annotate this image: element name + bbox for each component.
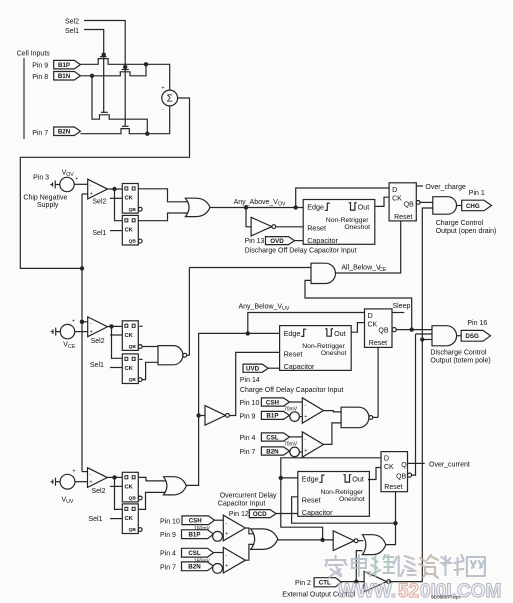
svg-text:+: + — [304, 448, 307, 454]
svg-text:Edge: Edge — [302, 475, 319, 484]
svg-text:+: + — [72, 318, 75, 324]
svg-text:160mV: 160mV — [194, 558, 211, 564]
svg-text:Q: Q — [401, 462, 407, 469]
svg-text:Out: Out — [358, 203, 370, 212]
svg-text:Charge Control: Charge Control — [436, 220, 484, 227]
svg-text:Capacitor Input: Capacitor Input — [218, 501, 266, 508]
svg-text:CK: CK — [125, 196, 134, 202]
svg-text:Sel2: Sel2 — [91, 338, 105, 345]
svg-text:Oneshot: Oneshot — [339, 496, 365, 503]
svg-text:B1P: B1P — [266, 413, 278, 420]
svg-text:CK: CK — [125, 516, 134, 522]
svg-text:OCD: OCD — [253, 511, 267, 518]
svg-text:Pin 4: Pin 4 — [240, 435, 256, 442]
svg-text:CK: CK — [384, 464, 394, 471]
svg-text:Σ: Σ — [167, 94, 173, 105]
svg-text:Discharge Control: Discharge Control — [430, 349, 486, 356]
svg-text:CSH: CSH — [189, 518, 203, 525]
svg-text:160mV: 160mV — [194, 526, 211, 532]
svg-text:Out: Out — [352, 475, 364, 484]
svg-text:Reset: Reset — [394, 214, 412, 221]
svg-text:CK: CK — [125, 333, 134, 339]
svg-text:Sel1: Sel1 — [92, 230, 106, 237]
svg-text:B2N: B2N — [266, 448, 279, 455]
svg-text:Over_current: Over_current — [429, 462, 470, 469]
svg-text:CK: CK — [125, 366, 134, 372]
svg-text:SD05887T.eps: SD05887T.eps — [431, 595, 461, 600]
svg-text:+: + — [73, 469, 76, 475]
svg-text:B1N: B1N — [58, 73, 71, 80]
svg-text:52: 52 — [398, 581, 419, 602]
svg-text:Oneshot: Oneshot — [344, 224, 370, 231]
svg-text:Over_charge: Over_charge — [425, 184, 466, 191]
svg-text:DSG: DSG — [465, 333, 479, 340]
svg-text:Pin 16: Pin 16 — [467, 320, 487, 327]
svg-text:D: D — [368, 311, 373, 320]
svg-text:Reset: Reset — [284, 350, 303, 359]
svg-text:CSL: CSL — [266, 434, 279, 441]
svg-text:Pin 2: Pin 2 — [295, 580, 311, 587]
svg-text:Out: Out — [334, 329, 346, 338]
svg-text:CK: CK — [125, 485, 134, 491]
svg-text:+: + — [304, 414, 307, 420]
svg-text:CTL: CTL — [319, 580, 331, 587]
svg-text:QB: QB — [129, 496, 137, 502]
svg-text:Reset: Reset — [369, 340, 387, 347]
svg-text:Edge: Edge — [284, 329, 301, 338]
svg-text:Sleep: Sleep — [393, 303, 411, 310]
svg-text:All_Below_V: All_Below_V — [341, 264, 381, 271]
svg-text:Pin 3: Pin 3 — [33, 174, 49, 181]
svg-text:Sel1: Sel1 — [90, 362, 104, 369]
svg-text:Sel1: Sel1 — [65, 28, 79, 35]
svg-text:QB: QB — [396, 473, 406, 480]
svg-text:Pin 4: Pin 4 — [160, 551, 176, 558]
svg-text:QB: QB — [129, 344, 137, 350]
svg-text:WWW.: WWW. — [338, 581, 396, 602]
svg-text:UVD: UVD — [246, 366, 260, 373]
svg-text:Pin 14: Pin 14 — [240, 377, 260, 384]
svg-text:Sel2: Sel2 — [92, 199, 106, 206]
svg-text:D: D — [384, 454, 389, 463]
svg-text:CE: CE — [379, 267, 387, 273]
svg-text:+: + — [75, 176, 78, 182]
svg-text:Capacitor: Capacitor — [284, 362, 315, 371]
svg-text:Supply: Supply — [37, 202, 59, 209]
svg-text:B1P: B1P — [58, 62, 70, 69]
svg-text:QB: QB — [129, 377, 137, 383]
svg-text:Reset: Reset — [302, 495, 321, 504]
svg-text:Pin 7: Pin 7 — [240, 449, 256, 456]
svg-text:Sel2: Sel2 — [65, 19, 79, 26]
svg-text:70mV: 70mV — [284, 441, 298, 447]
svg-text:B1P: B1P — [188, 532, 200, 539]
svg-text:+: + — [162, 85, 165, 91]
svg-text:+: + — [225, 531, 228, 537]
svg-text:B2N: B2N — [188, 564, 201, 571]
svg-text:Pin 10: Pin 10 — [240, 400, 260, 407]
svg-text:OVD: OVD — [270, 238, 284, 245]
svg-text:Pin 1: Pin 1 — [469, 190, 485, 197]
svg-text:CSL: CSL — [188, 550, 201, 557]
svg-text:Edge: Edge — [307, 203, 324, 212]
svg-text:Chip Negative: Chip Negative — [23, 195, 67, 202]
svg-text:Discharge Off Delay Capacitor: Discharge Off Delay Capacitor Input — [245, 248, 357, 255]
svg-text:+: + — [90, 329, 93, 335]
svg-text:Pin 8: Pin 8 — [32, 74, 48, 81]
svg-text:B2N: B2N — [58, 129, 71, 136]
svg-text:Pin 7: Pin 7 — [32, 130, 48, 137]
svg-text:Overcurrent Delay: Overcurrent Delay — [220, 492, 277, 499]
svg-text:QB: QB — [129, 239, 137, 245]
svg-text:Reset: Reset — [384, 484, 402, 491]
svg-text:Pin 9: Pin 9 — [32, 63, 48, 70]
svg-text:Oneshot: Oneshot — [321, 350, 347, 357]
svg-text:CK: CK — [392, 196, 402, 203]
svg-text:Output (open drain): Output (open drain) — [436, 228, 497, 235]
svg-text:CSH: CSH — [266, 399, 280, 406]
svg-text:Pin 13: Pin 13 — [245, 238, 265, 245]
svg-text:QB: QB — [129, 207, 137, 213]
svg-text:Cell Inputs: Cell Inputs — [17, 51, 51, 58]
svg-text:Pin 9: Pin 9 — [240, 413, 256, 420]
svg-text:QB: QB — [129, 527, 137, 533]
svg-text:CK: CK — [125, 228, 134, 234]
svg-text:Reset: Reset — [307, 223, 326, 232]
svg-text:+: + — [90, 191, 93, 197]
svg-text:+: + — [225, 564, 228, 570]
svg-text:Sel2: Sel2 — [92, 488, 106, 495]
svg-text:Pin 10: Pin 10 — [160, 518, 180, 525]
svg-text:Pin 9: Pin 9 — [160, 532, 176, 539]
svg-text:Sel1: Sel1 — [89, 516, 103, 523]
svg-text:Pin 12: Pin 12 — [229, 511, 249, 518]
svg-text:Charge Off Delay Capacitor Inp: Charge Off Delay Capacitor Input — [240, 387, 343, 394]
svg-text:Output (totem pole): Output (totem pole) — [430, 358, 490, 365]
svg-text:Capacitor: Capacitor — [307, 236, 338, 245]
svg-text:D: D — [392, 185, 397, 194]
svg-text:QB: QB — [378, 327, 388, 334]
svg-text:Pin 7: Pin 7 — [160, 564, 176, 571]
svg-text:Capacitor: Capacitor — [302, 508, 333, 517]
svg-text:QB: QB — [404, 202, 414, 209]
svg-text:+: + — [90, 480, 93, 486]
svg-text:CK: CK — [368, 322, 378, 329]
svg-text:CHG: CHG — [466, 203, 480, 210]
